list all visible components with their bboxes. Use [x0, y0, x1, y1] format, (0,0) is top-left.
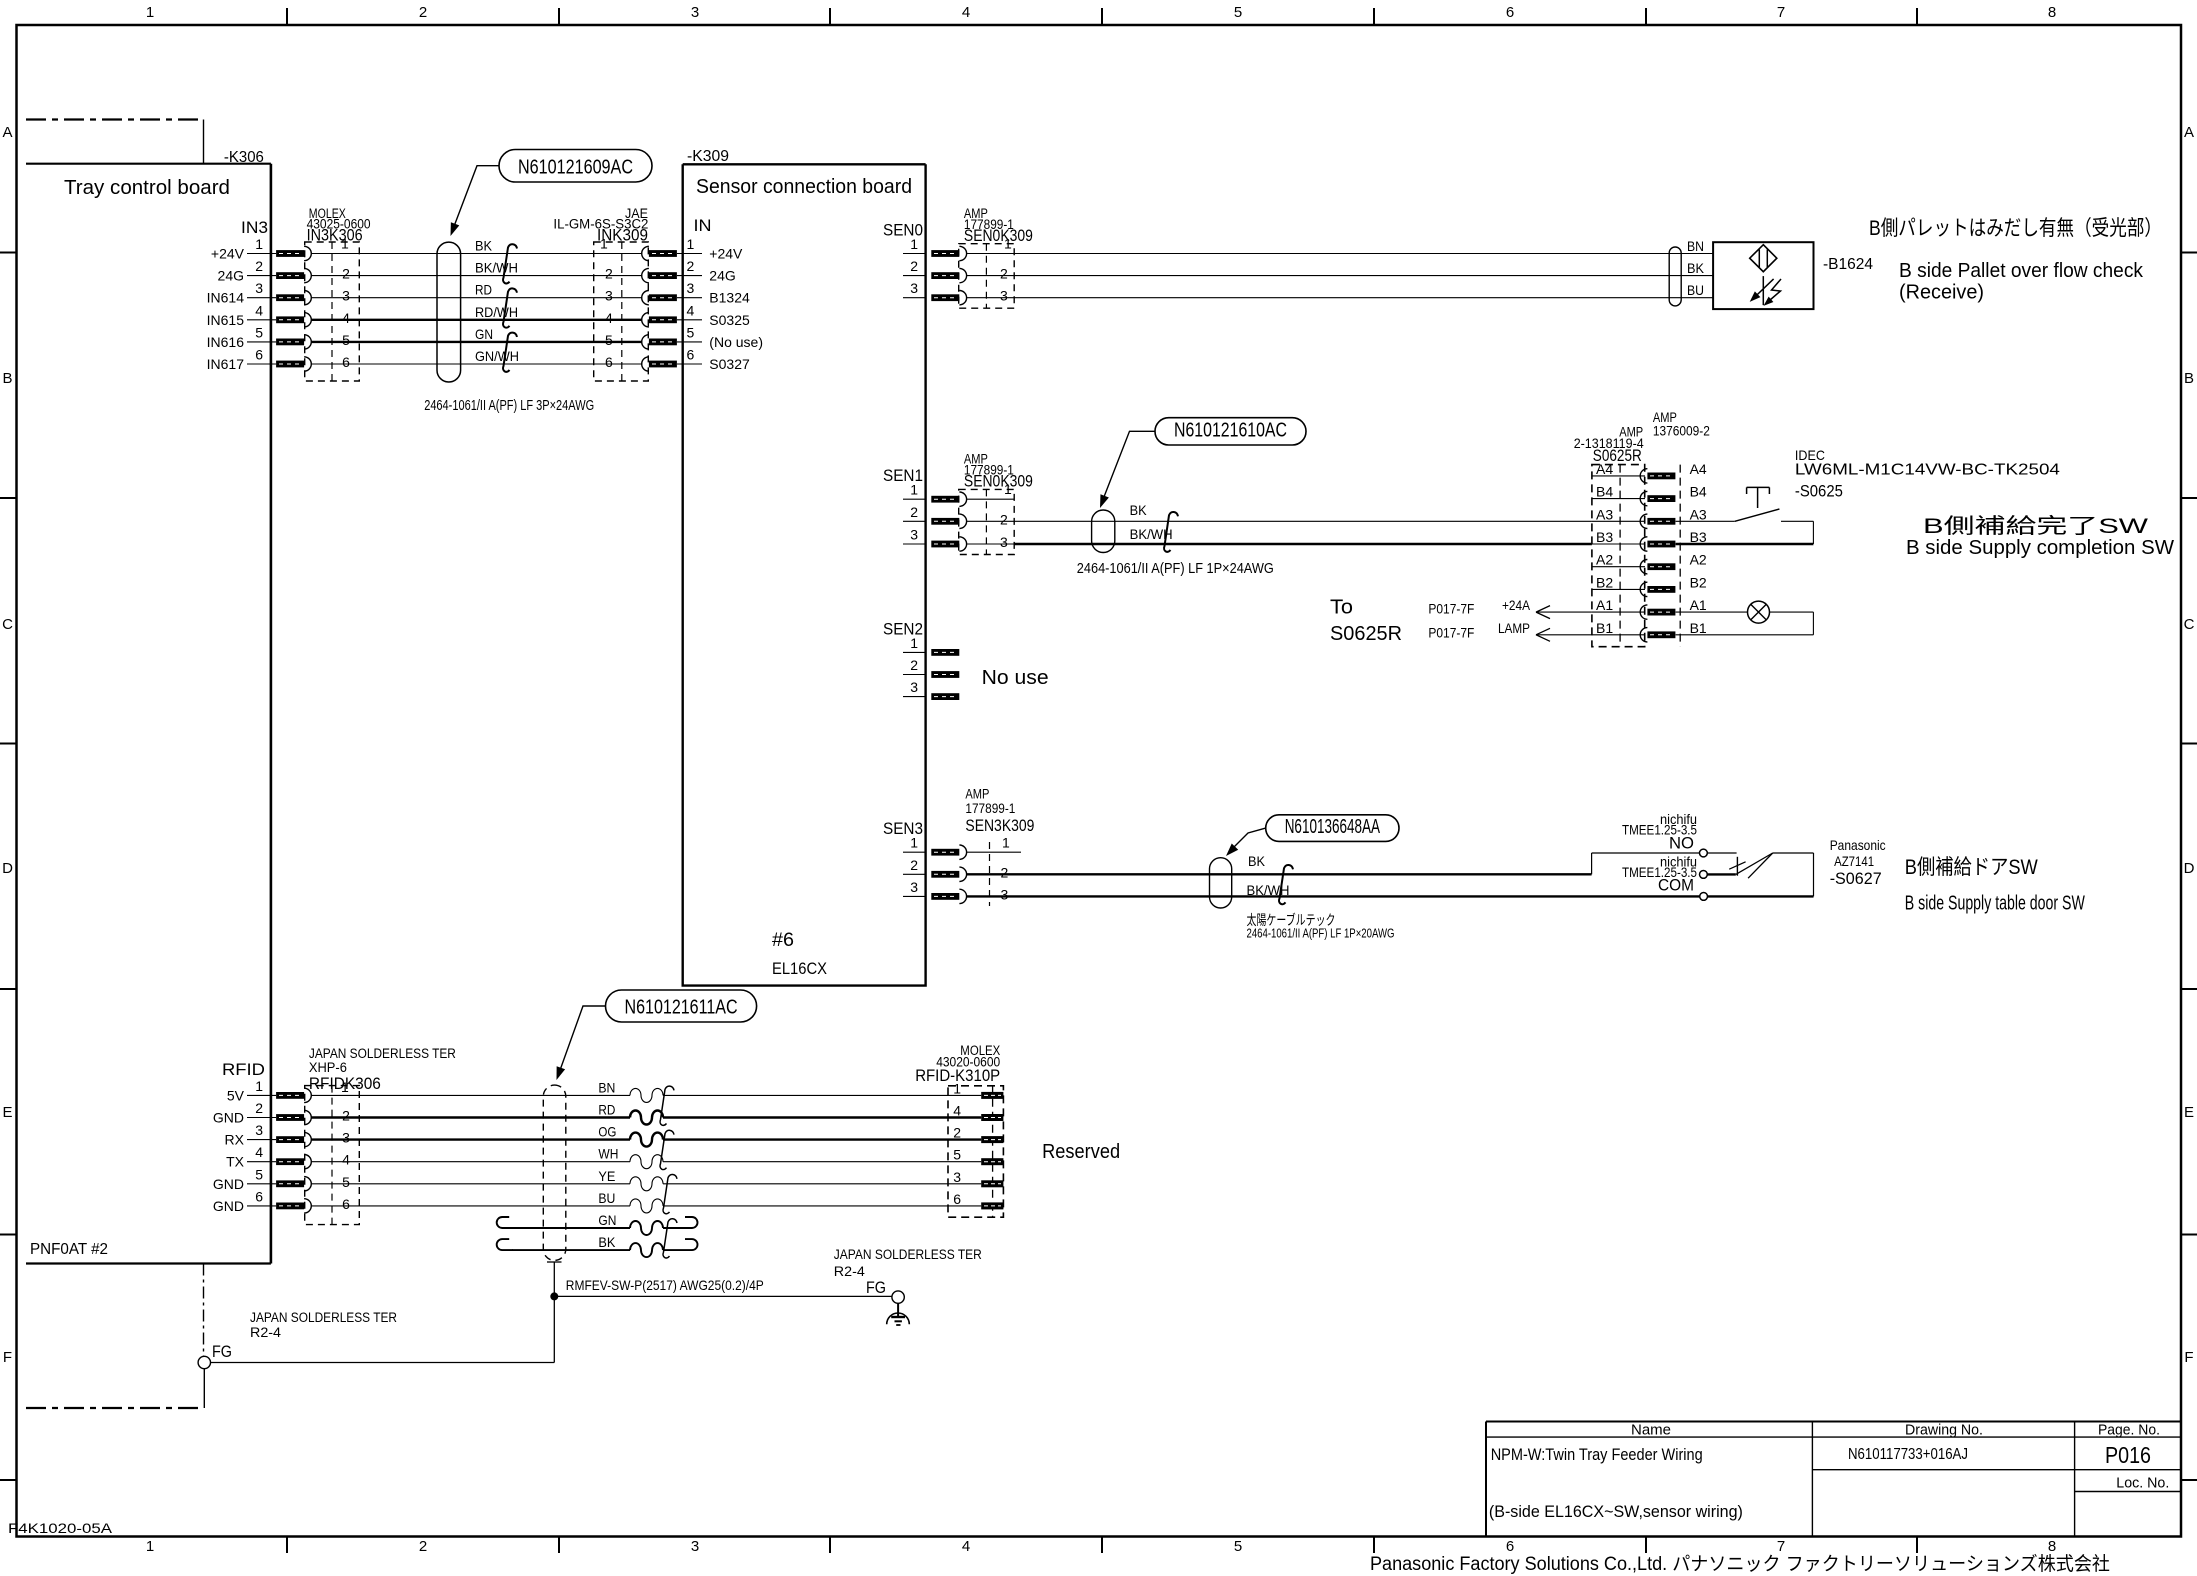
- wire COM to loop bold: [1708, 895, 1814, 897]
- door switch S0627 fixed contact tick: [1736, 857, 1738, 876]
- svg-text:24G: 24G: [709, 268, 735, 284]
- svg-text:2: 2: [1001, 864, 1009, 880]
- wire RFID pin6 to RFID-K310P: [311, 1205, 630, 1207]
- svg-text:RMFEV-SW-P(2517) AWG25(0.2)/4P: RMFEV-SW-P(2517) AWG25(0.2)/4P: [566, 1277, 764, 1293]
- svg-text:+24A: +24A: [1502, 597, 1531, 613]
- wire IN3 pin4 to INK309: [311, 319, 642, 321]
- svg-text:JAPAN SOLDERLESS TER: JAPAN SOLDERLESS TER: [250, 1310, 397, 1325]
- twist symbol SEN1 cable: [1164, 512, 1178, 552]
- door switch S0627 blade: [1736, 853, 1773, 874]
- wire SEN1 pin2 to S0625R A3: [1014, 520, 1592, 522]
- svg-text:YE: YE: [598, 1168, 615, 1184]
- cable sheath oval N610121609AC: [437, 242, 461, 382]
- svg-text:B4: B4: [1596, 484, 1613, 500]
- svg-text:2: 2: [1000, 266, 1008, 282]
- wire IN3 pin1 to INK309: [311, 253, 642, 255]
- svg-text:6: 6: [953, 1191, 961, 1207]
- svg-text:Sensor connection board: Sensor connection board: [696, 176, 912, 198]
- svg-text:3: 3: [255, 1122, 263, 1138]
- part bubble N610121611AC: [606, 990, 757, 1022]
- wire SEN3 pin3 to COM bold: [967, 895, 1700, 897]
- tray control board K306 outline step: [203, 120, 205, 164]
- svg-text:8: 8: [2048, 4, 2056, 21]
- svg-text:6: 6: [255, 347, 263, 363]
- svg-text:A1: A1: [1690, 597, 1707, 613]
- svg-text:C: C: [2, 616, 13, 633]
- wire SEN0 pin3 to B1624: [1014, 297, 1713, 299]
- svg-text:A2: A2: [1596, 552, 1613, 568]
- svg-text:1376009-2: 1376009-2: [1653, 424, 1710, 439]
- tray control board K306 right edge: [270, 164, 273, 1264]
- twist symbol SEN3 cable: [1279, 865, 1293, 904]
- svg-text:2: 2: [342, 266, 350, 282]
- frame column ticks bottom: [286, 1537, 288, 1554]
- svg-text:6: 6: [1506, 1538, 1514, 1555]
- svg-text:2: 2: [419, 4, 427, 21]
- svg-text:P016: P016: [2105, 1442, 2151, 1468]
- svg-text:B: B: [2184, 370, 2194, 387]
- svg-text:A3: A3: [1690, 506, 1707, 522]
- svg-text:6: 6: [255, 1188, 263, 1204]
- svg-text:3: 3: [605, 288, 613, 304]
- svg-text:IDEC: IDEC: [1795, 447, 1825, 463]
- svg-text:B2: B2: [1690, 574, 1707, 590]
- terminal FG right circle: [892, 1291, 904, 1303]
- tray board bottom continuation dash-dot vertical: [203, 1264, 205, 1357]
- svg-text:JAPAN SOLDERLESS TER: JAPAN SOLDERLESS TER: [309, 1046, 456, 1061]
- svg-text:RFID: RFID: [222, 1060, 265, 1079]
- wire riser to NO level: [1591, 853, 1593, 874]
- svg-text:1: 1: [341, 236, 349, 252]
- svg-text:Tray control board: Tray control board: [64, 177, 230, 199]
- svg-text:1: 1: [910, 835, 918, 851]
- svg-text:5: 5: [255, 1166, 263, 1182]
- tray board bottom dash-dot edge: [26, 1407, 204, 1409]
- svg-text:GN: GN: [475, 326, 493, 342]
- svg-text:2: 2: [910, 657, 918, 673]
- svg-text:2: 2: [255, 1100, 263, 1116]
- wire A1 to lamp: [1676, 611, 1748, 613]
- svg-text:No use: No use: [982, 667, 1049, 689]
- svg-text:8: 8: [2048, 1538, 2056, 1555]
- cable sheath oval SEN3 cable: [1210, 858, 1232, 908]
- svg-text:5: 5: [342, 332, 350, 348]
- terminal NO circle: [1700, 849, 1708, 857]
- connector RFIDK306 dashed housing: [305, 1086, 360, 1225]
- svg-text:E: E: [2, 1104, 12, 1121]
- wire B3 bold to loop: [1676, 543, 1814, 545]
- svg-text:3: 3: [691, 4, 699, 21]
- svg-text:IN615: IN615: [207, 312, 245, 328]
- wire GN spare with hooks: [512, 1227, 630, 1229]
- svg-text:-B1624: -B1624: [1823, 256, 1873, 273]
- svg-text:3: 3: [255, 280, 263, 296]
- leader arrow N610136648AA: [1230, 828, 1266, 851]
- svg-text:3: 3: [910, 679, 918, 695]
- svg-text:Loc. No.: Loc. No.: [2116, 1475, 2169, 1492]
- wire RFID pin4 to RFID-K310P: [311, 1161, 630, 1163]
- svg-text:NO: NO: [1669, 834, 1694, 853]
- wire RFID pin3 to RFID-K310P: [311, 1138, 630, 1140]
- svg-text:2: 2: [255, 258, 263, 274]
- svg-text:B side Supply completion SW: B side Supply completion SW: [1906, 537, 2174, 559]
- pin 1 INK309: [649, 250, 677, 257]
- ground symbol FG: [897, 1303, 899, 1316]
- frame row ticks left: [0, 252, 17, 254]
- svg-text:B3: B3: [1690, 529, 1707, 545]
- svg-text:4: 4: [962, 4, 970, 21]
- svg-text:-S0627: -S0627: [1830, 869, 1882, 888]
- tray board bottom stub below FG: [203, 1369, 205, 1408]
- svg-text:B3: B3: [1596, 529, 1613, 545]
- svg-text:Panasonic: Panasonic: [1830, 837, 1886, 853]
- wire FG horizontal from left FG terminal: [211, 1362, 555, 1364]
- terminal COM circle: [1700, 893, 1708, 901]
- svg-text:3: 3: [342, 1130, 350, 1146]
- svg-text:1: 1: [910, 482, 918, 498]
- svg-text:A4: A4: [1596, 461, 1613, 477]
- svg-text:XHP-6: XHP-6: [309, 1060, 347, 1075]
- svg-text:1: 1: [341, 1079, 349, 1095]
- svg-text:A: A: [2184, 124, 2194, 141]
- twist symbol cable1 pair2: [503, 288, 517, 327]
- svg-text:RD/WH: RD/WH: [475, 304, 518, 320]
- svg-text:F: F: [3, 1349, 12, 1366]
- wire middle terminal to blade pivot bold: [1707, 873, 1736, 875]
- svg-text:3: 3: [1000, 288, 1008, 304]
- wire SEN0 pin2 to B1624: [1014, 275, 1713, 277]
- svg-text:S0325: S0325: [709, 312, 750, 328]
- svg-text:4: 4: [953, 1103, 961, 1119]
- sensor connection board K309 outline: [683, 163, 926, 165]
- twist symbol cable1 pair3: [503, 333, 517, 372]
- wire FG vertical riser: [553, 1262, 555, 1363]
- svg-text:AMP: AMP: [965, 787, 989, 802]
- svg-text:IN3: IN3: [241, 218, 268, 237]
- lamp S0625 indicator: [1748, 601, 1770, 623]
- svg-text:BN: BN: [598, 1079, 615, 1095]
- svg-text:AMP: AMP: [1619, 425, 1643, 440]
- cable shield oval RFID cable dashed: [543, 1085, 566, 1260]
- svg-text:A4: A4: [1690, 461, 1707, 477]
- svg-text:2: 2: [1000, 511, 1008, 527]
- svg-text:5: 5: [342, 1174, 350, 1190]
- svg-text:2: 2: [910, 504, 918, 520]
- svg-text:(Receive): (Receive): [1899, 282, 1984, 304]
- pin 5 INK309: [649, 339, 677, 346]
- svg-text:B: B: [2, 370, 12, 387]
- svg-text:LW6ML-M1C14VW-BC-TK2504: LW6ML-M1C14VW-BC-TK2504: [1795, 462, 2060, 479]
- svg-text:EL16CX: EL16CX: [772, 959, 827, 978]
- pin 3 INK309: [649, 294, 677, 301]
- svg-text:SEN0K309: SEN0K309: [964, 226, 1033, 245]
- svg-text:6: 6: [1506, 4, 1514, 21]
- junction FG node: [550, 1292, 558, 1300]
- svg-text:2: 2: [910, 857, 918, 873]
- svg-text:4: 4: [342, 1152, 350, 1168]
- terminal FG left circle: [198, 1356, 210, 1368]
- svg-text:5: 5: [953, 1147, 961, 1163]
- tray control board K306 outline top dash-dot: [26, 118, 204, 120]
- terminal middle TMEE circle: [1700, 871, 1708, 879]
- svg-text:1: 1: [1004, 481, 1012, 497]
- svg-text:1: 1: [910, 236, 918, 252]
- svg-text:P017-7F: P017-7F: [1428, 624, 1474, 640]
- svg-text:Page. No.: Page. No.: [2098, 1422, 2160, 1439]
- leader arrow N610121609AC: [453, 166, 499, 229]
- svg-text:6: 6: [342, 354, 350, 370]
- svg-text:#6: #6: [772, 930, 794, 951]
- shield drain tick below oval: [547, 1261, 562, 1263]
- leader arrow N610121611AC: [559, 1006, 606, 1073]
- svg-text:E: E: [2184, 1104, 2194, 1121]
- svg-text:+24V: +24V: [211, 246, 245, 262]
- svg-text:D: D: [2184, 860, 2195, 877]
- svg-text:1: 1: [1002, 835, 1010, 851]
- svg-text:BK: BK: [475, 238, 493, 254]
- wire lamp to loop: [1770, 611, 1814, 613]
- svg-text:2: 2: [342, 1108, 350, 1124]
- svg-text:LAMP: LAMP: [1498, 620, 1530, 636]
- wire A3 to switch S0625: [1676, 520, 1735, 522]
- svg-text:COM: COM: [1658, 876, 1694, 895]
- svg-text:SEN0K309: SEN0K309: [964, 472, 1033, 491]
- sensor B1624 photoelectric receiver symbol: [1750, 245, 1777, 272]
- svg-text:B側補給ドアSW: B側補給ドアSW: [1905, 856, 2038, 879]
- svg-text:IN617: IN617: [207, 356, 245, 372]
- svg-text:5: 5: [255, 324, 263, 340]
- svg-text:A: A: [2, 124, 12, 141]
- svg-text:5: 5: [687, 324, 695, 340]
- connector IN3K306 dashed housing: [305, 242, 360, 381]
- wire RFID pin2 to RFID-K310P: [311, 1116, 630, 1118]
- svg-text:SEN3K309: SEN3K309: [965, 816, 1034, 835]
- wire SEN1 pin3 to S0625R B3 bold: [1014, 543, 1592, 545]
- svg-text:NPM-W:Twin Tray Feeder Wiring: NPM-W:Twin Tray Feeder Wiring: [1491, 1445, 1703, 1464]
- svg-text:RX: RX: [225, 1132, 245, 1148]
- svg-text:2: 2: [605, 266, 613, 282]
- switch S0625 contact blade: [1735, 509, 1780, 521]
- svg-text:3: 3: [342, 288, 350, 304]
- svg-text:Panasonic Factory Solutions Co: Panasonic Factory Solutions Co.,Ltd. パナソ…: [1370, 1553, 2110, 1575]
- wire SEN3 pin2 bold: [967, 873, 1592, 875]
- wire RFID pin1 to RFID-K310P: [311, 1094, 630, 1096]
- svg-text:N610136648AA: N610136648AA: [1285, 816, 1381, 838]
- svg-text:B側補給完了SW: B側補給完了SW: [1923, 515, 2148, 538]
- svg-text:3: 3: [687, 280, 695, 296]
- svg-text:N610121609AC: N610121609AC: [518, 157, 633, 179]
- svg-text:3: 3: [1000, 534, 1008, 550]
- svg-text:3: 3: [910, 280, 918, 296]
- svg-text:N610121611AC: N610121611AC: [625, 997, 738, 1019]
- wire SEN0 pin1 to B1624: [1014, 253, 1713, 255]
- svg-text:P017-7F: P017-7F: [1428, 601, 1474, 617]
- twist symbol cable1 pair1: [503, 244, 517, 283]
- svg-text:24G: 24G: [218, 268, 244, 284]
- svg-text:A1: A1: [1596, 597, 1613, 613]
- svg-text:-K309: -K309: [687, 148, 729, 165]
- svg-text:R2-4: R2-4: [250, 1325, 282, 1340]
- svg-text:4: 4: [962, 1538, 970, 1555]
- wire SEN3 pin1 stub: [967, 851, 1021, 853]
- svg-text:(No use): (No use): [709, 334, 763, 350]
- svg-text:OG: OG: [598, 1124, 616, 1140]
- pin 6 INK309: [649, 361, 677, 368]
- pin 2 INK309: [649, 272, 677, 279]
- svg-text:(B-side EL16CX~SW,sensor wirin: (B-side EL16CX~SW,sensor wiring): [1489, 1502, 1743, 1521]
- svg-text:2464-1061/II A(PF) LF 1P×20AWG: 2464-1061/II A(PF) LF 1P×20AWG: [1247, 926, 1395, 941]
- svg-text:B1: B1: [1596, 620, 1613, 636]
- cable sheath oval SEN1 cable: [1092, 510, 1115, 553]
- svg-text:IN616: IN616: [207, 334, 245, 350]
- svg-text:F4K1020-05A: F4K1020-05A: [8, 1521, 112, 1536]
- wire IN3 pin5 to INK309: [311, 341, 642, 343]
- wire B1 to loop: [1676, 634, 1814, 636]
- connector S0625R dashed housing: [1592, 465, 1645, 647]
- svg-text:IN614: IN614: [207, 290, 245, 306]
- svg-text:B4: B4: [1690, 484, 1707, 500]
- wire BK spare with hooks: [512, 1249, 630, 1251]
- frame row ticks right: [2181, 252, 2197, 254]
- svg-text:7: 7: [1777, 4, 1785, 21]
- svg-text:3: 3: [1001, 886, 1009, 902]
- svg-text:B1324: B1324: [709, 290, 750, 306]
- svg-text:RD: RD: [475, 282, 492, 298]
- svg-text:3: 3: [910, 527, 918, 543]
- svg-text:Reserved: Reserved: [1042, 1141, 1120, 1163]
- svg-text:BK/WH: BK/WH: [475, 260, 518, 276]
- svg-text:2464-1061/II A(PF) LF 3P×24AWG: 2464-1061/II A(PF) LF 3P×24AWG: [424, 398, 594, 414]
- svg-text:3: 3: [691, 1538, 699, 1555]
- svg-text:A2: A2: [1690, 552, 1707, 568]
- svg-text:S0625R: S0625R: [1330, 623, 1402, 645]
- wire IN3 pin3 to INK309: [311, 297, 642, 299]
- svg-text:B1: B1: [1690, 620, 1707, 636]
- connector SEN3K309 dashed edge: [989, 842, 991, 906]
- connector SEN0K309 dashed housing: [959, 489, 1015, 554]
- svg-text:To: To: [1330, 597, 1353, 619]
- svg-text:B side Supply table door SW: B side Supply table door SW: [1905, 893, 2085, 915]
- svg-text:1: 1: [146, 4, 154, 21]
- svg-text:C: C: [2184, 616, 2195, 633]
- svg-text:N610117733+016AJ: N610117733+016AJ: [1848, 1446, 1968, 1463]
- svg-text:1: 1: [146, 1538, 154, 1555]
- svg-text:4: 4: [605, 310, 613, 326]
- svg-text:177899-1: 177899-1: [965, 801, 1015, 816]
- svg-text:B2: B2: [1596, 574, 1613, 590]
- svg-text:F: F: [2184, 1349, 2193, 1366]
- wire IN3 pin6 to INK309: [311, 363, 642, 365]
- svg-text:6: 6: [605, 354, 613, 370]
- wire IN3 pin2 to INK309: [311, 275, 642, 277]
- svg-text:1: 1: [255, 1078, 263, 1094]
- svg-text:BK: BK: [598, 1234, 616, 1250]
- sensor B1624 box: [1713, 242, 1813, 309]
- pin 4 INK309: [649, 316, 677, 323]
- tray control board K306 top edge: [26, 163, 271, 165]
- svg-text:4: 4: [255, 1144, 263, 1160]
- svg-text:6: 6: [687, 347, 695, 363]
- svg-text:S0327: S0327: [709, 356, 750, 372]
- svg-text:FG: FG: [212, 1342, 232, 1361]
- svg-text:WH: WH: [598, 1146, 618, 1162]
- connector RFID-K310P dashed housing: [948, 1086, 1003, 1217]
- svg-text:+24V: +24V: [709, 246, 743, 262]
- svg-text:7: 7: [1777, 1538, 1785, 1555]
- svg-text:FG: FG: [866, 1278, 886, 1297]
- svg-text:B側パレットはみだし有無（受光部）: B側パレットはみだし有無（受光部）: [1869, 217, 2162, 240]
- svg-text:RD: RD: [598, 1102, 615, 1118]
- svg-text:2: 2: [419, 1538, 427, 1555]
- title block frame: [1486, 1421, 2181, 1423]
- connector INK309 dashed housing: [594, 242, 649, 381]
- tray control board K306 bottom edge: [26, 1262, 271, 1264]
- svg-text:A3: A3: [1596, 506, 1613, 522]
- svg-text:-S0625: -S0625: [1795, 482, 1843, 501]
- part bubble N610121610AC: [1155, 418, 1306, 445]
- svg-text:-K306: -K306: [224, 149, 264, 166]
- wire FG horizontal to right FG terminal: [554, 1295, 892, 1297]
- svg-text:5: 5: [1234, 4, 1242, 21]
- switch S0625 pushbutton actuator: [1747, 486, 1770, 488]
- svg-text:AZ7141: AZ7141: [1834, 853, 1874, 869]
- svg-text:PNF0AT #2: PNF0AT #2: [30, 1241, 108, 1258]
- svg-text:TX: TX: [226, 1154, 245, 1170]
- part bubble N610121609AC: [499, 150, 652, 183]
- svg-text:4: 4: [687, 302, 695, 318]
- svg-text:JAPAN SOLDERLESS TER: JAPAN SOLDERLESS TER: [834, 1247, 982, 1262]
- svg-text:B side Pallet over flow check: B side Pallet over flow check: [1899, 260, 2144, 282]
- svg-text:R2-4: R2-4: [834, 1264, 866, 1279]
- wire RFID pin5 to RFID-K310P: [311, 1183, 630, 1185]
- svg-text:GN: GN: [598, 1212, 616, 1228]
- svg-text:5: 5: [1234, 1538, 1242, 1555]
- wire A1 from P017 arrow: [1536, 606, 1550, 613]
- svg-text:5V: 5V: [227, 1087, 245, 1103]
- svg-text:4: 4: [255, 302, 263, 318]
- svg-text:BK: BK: [1687, 260, 1705, 276]
- svg-text:1: 1: [600, 236, 608, 252]
- svg-text:GND: GND: [213, 1110, 244, 1126]
- svg-text:BN: BN: [1687, 238, 1704, 254]
- svg-text:5: 5: [605, 332, 613, 348]
- svg-text:2: 2: [910, 258, 918, 274]
- svg-text:1: 1: [255, 236, 263, 252]
- svg-text:D: D: [2, 860, 13, 877]
- svg-text:GND: GND: [213, 1198, 244, 1214]
- svg-text:BK: BK: [1130, 502, 1148, 518]
- svg-text:4: 4: [342, 310, 350, 326]
- wire NO feed: [1592, 852, 1700, 854]
- svg-text:IN: IN: [694, 216, 712, 235]
- wire B1 from P017 arrow: [1536, 628, 1550, 635]
- part bubble N610136648AA: [1266, 815, 1399, 842]
- svg-text:3: 3: [953, 1169, 961, 1185]
- svg-text:BK: BK: [1248, 853, 1266, 869]
- svg-text:3: 3: [910, 879, 918, 895]
- connector SEN0K309 dashed housing: [959, 244, 1015, 309]
- twist symbols RFID cable: [660, 1086, 674, 1125]
- wire NO to fixed contact: [1707, 852, 1736, 854]
- cable sheath oval B1624 cable: [1669, 247, 1681, 306]
- svg-text:1: 1: [910, 635, 918, 651]
- svg-text:GND: GND: [213, 1176, 244, 1192]
- svg-text:Name: Name: [1631, 1422, 1671, 1439]
- frame column ticks top: [286, 8, 288, 25]
- leader arrow N610121610AC: [1102, 431, 1155, 502]
- svg-text:2: 2: [687, 258, 695, 274]
- svg-text:Drawing No.: Drawing No.: [1905, 1422, 1983, 1439]
